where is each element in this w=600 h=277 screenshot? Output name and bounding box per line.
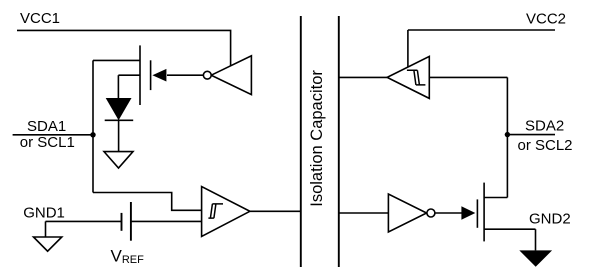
svg-text:VCC1: VCC1	[20, 10, 60, 27]
svg-text:or SCL1: or SCL1	[20, 134, 75, 151]
svg-text:GND1: GND1	[23, 205, 65, 222]
svg-text:VCC2: VCC2	[526, 11, 566, 28]
svg-text:VREF: VREF	[111, 247, 145, 267]
svg-text:GND2: GND2	[529, 211, 571, 228]
svg-text:SDA1: SDA1	[27, 118, 66, 135]
svg-text:or SCL2: or SCL2	[518, 137, 573, 154]
svg-text:Isolation Capacitor: Isolation Capacitor	[308, 70, 326, 207]
svg-text:SDA2: SDA2	[525, 118, 564, 135]
